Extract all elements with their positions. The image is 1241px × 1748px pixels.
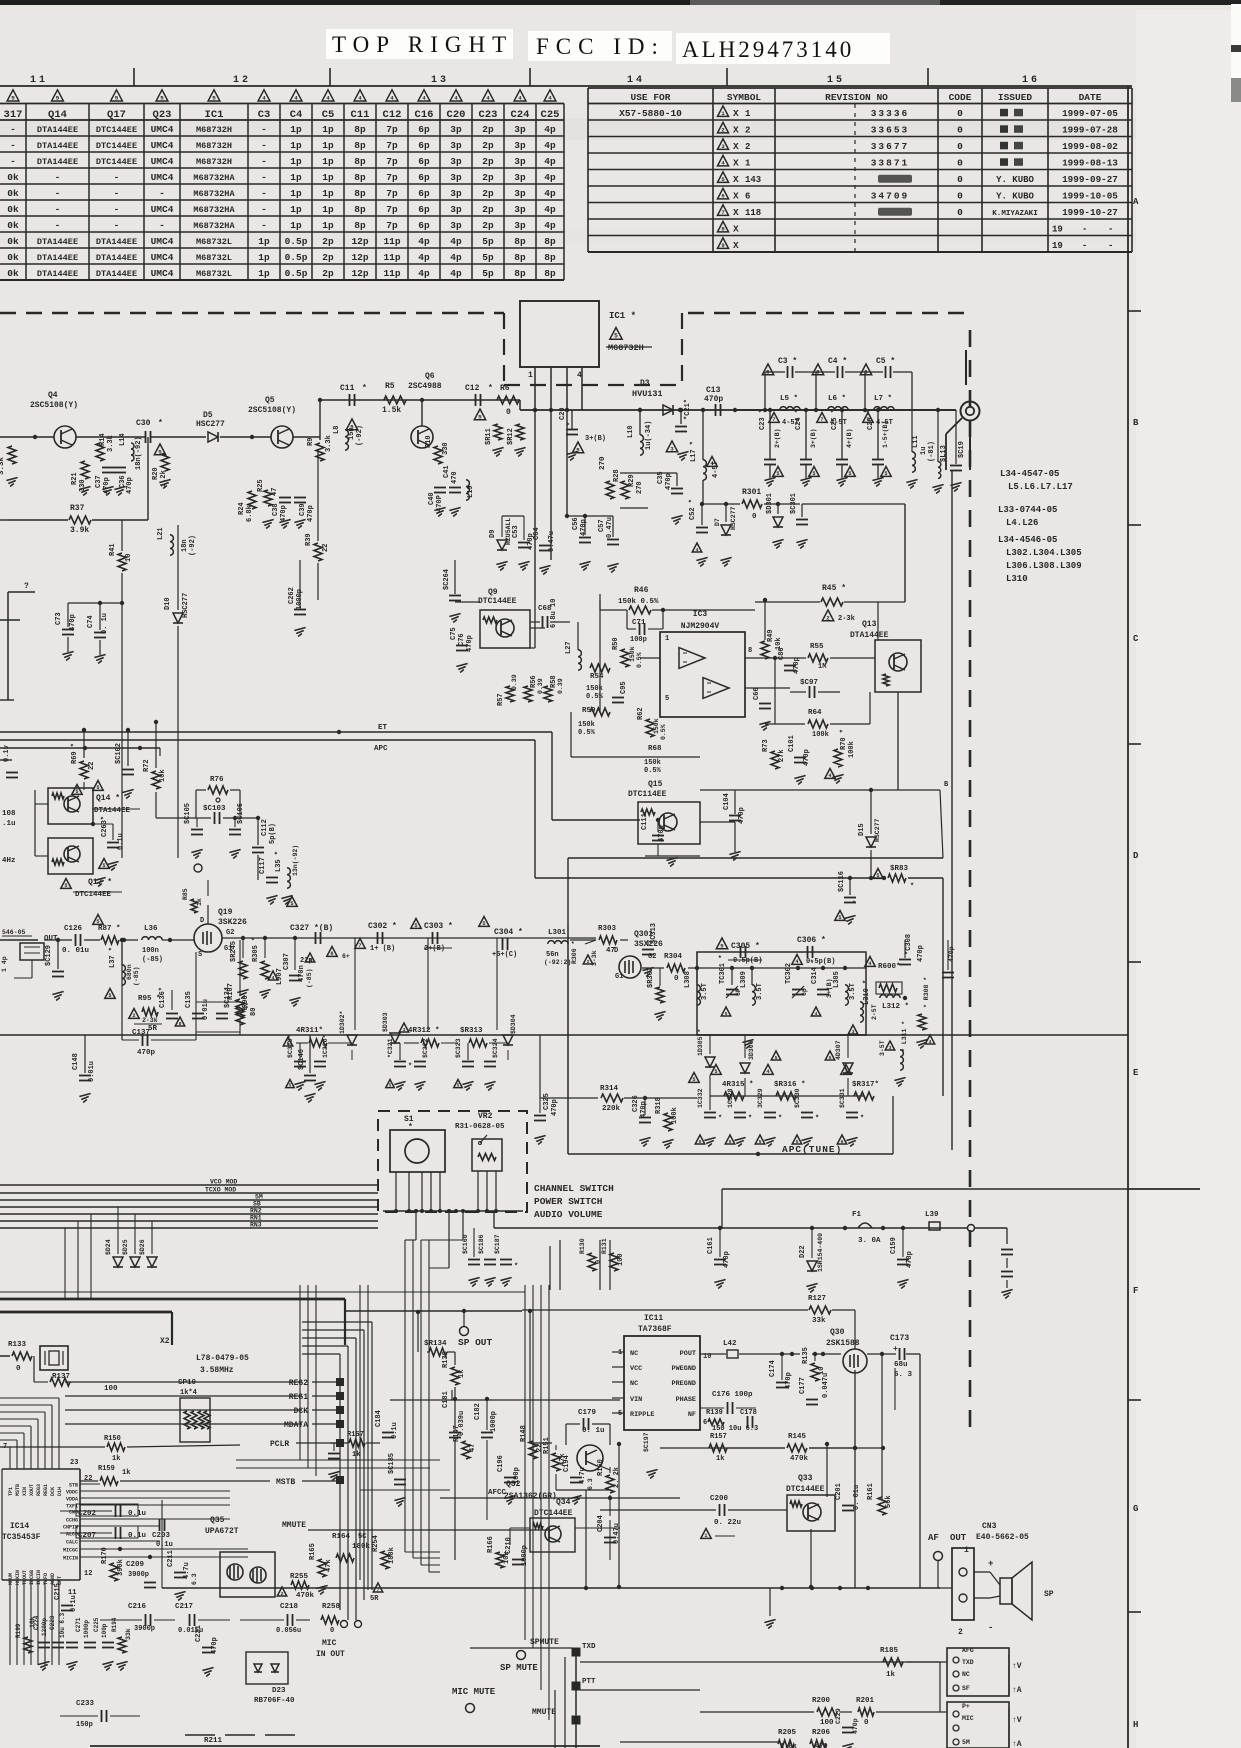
svg-text:4: 4 <box>454 94 458 101</box>
svg-text:C218: C218 <box>280 1603 299 1611</box>
diode SD301 <box>773 517 783 527</box>
IC14 bottom pins <box>9 1580 11 1665</box>
svg-text:1: 1 <box>704 1533 707 1539</box>
svg-text:2: 2 <box>958 1628 963 1637</box>
capacitor 3C330 <box>801 1112 813 1114</box>
svg-text:5: 5 <box>96 785 99 791</box>
svg-text:1p: 1p <box>290 220 302 231</box>
svg-text:C159: C159 <box>890 1237 898 1254</box>
svg-text:470p: 470p <box>640 1101 648 1118</box>
capacitors C23-C26 shunt bank <box>764 459 776 461</box>
svg-text:7p: 7p <box>386 156 398 167</box>
svg-text:*: * <box>488 384 493 393</box>
svg-text:C233: C233 <box>76 1700 95 1708</box>
svg-text:$C301: $C301 <box>790 493 798 514</box>
svg-text:M68732HA: M68732HA <box>193 205 235 215</box>
svg-text:-: - <box>55 220 61 231</box>
svg-text:4p: 4p <box>544 204 556 215</box>
resistor SR83 <box>888 874 906 882</box>
svg-text:470p: 470p <box>211 1637 219 1654</box>
svg-text:-: - <box>10 156 16 167</box>
IC14 top pins <box>9 1447 11 1469</box>
resistor R161 56k <box>878 1497 886 1515</box>
svg-text:L10: L10 <box>627 425 635 438</box>
svg-text:R303: R303 <box>598 925 617 933</box>
svg-text:Q4: Q4 <box>48 391 58 400</box>
resistor R166 10k <box>496 1552 504 1568</box>
svg-text:A: A <box>1133 197 1139 207</box>
svg-text:143: 143 <box>745 175 761 185</box>
svg-text:C104: C104 <box>723 793 731 810</box>
svg-text:R145: R145 <box>788 1433 807 1441</box>
svg-text:R127: R127 <box>808 1295 826 1303</box>
svg-text:R258: R258 <box>322 1603 341 1611</box>
svg-text:150k: 150k <box>644 759 661 767</box>
svg-text:R45 *: R45 * <box>822 584 846 593</box>
svg-text:Q33: Q33 <box>798 1474 813 1483</box>
svg-text:8p: 8p <box>354 140 366 151</box>
capacitor C201 <box>842 1505 854 1507</box>
svg-text:Q17: Q17 <box>107 109 126 121</box>
svg-text:C38: C38 <box>272 503 280 516</box>
svg-text:6p: 6p <box>418 140 430 151</box>
svg-text:C66: C66 <box>753 687 761 700</box>
svg-text:5: 5 <box>96 919 99 925</box>
svg-text:R54: R54 <box>590 673 604 681</box>
inductor L8 15n <box>345 430 348 437</box>
svg-text:F: F <box>1133 1286 1138 1296</box>
svg-text:D23: D23 <box>272 1687 286 1695</box>
svg-text:1u: 1u <box>920 447 928 455</box>
svg-text:33677: 33677 <box>871 141 910 152</box>
svg-text:R85: R85 <box>182 888 189 900</box>
long verticals center <box>299 1285 301 1460</box>
transistor Q14 DTA144EE <box>48 788 93 824</box>
svg-text:$D301: $D301 <box>766 493 774 514</box>
svg-text:13n(-92): 13n(-92) <box>292 845 299 876</box>
svg-text:$C185: $C185 <box>388 1453 396 1474</box>
svg-text:C304 *: C304 * <box>494 928 523 937</box>
transistor Q9 DTC144EE <box>480 610 530 648</box>
svg-text:7p: 7p <box>386 188 398 199</box>
capacitor C177 <box>806 1399 818 1401</box>
svg-text:0.1u: 0.1u <box>128 1532 146 1540</box>
svg-text:6p: 6p <box>418 172 430 183</box>
svg-text:XOUT: XOUT <box>29 1484 35 1496</box>
svg-text:-: - <box>114 220 120 231</box>
svg-text:HSKIN: HSKIN <box>15 1570 21 1585</box>
inductor L21 <box>170 535 173 542</box>
resistor R301 <box>742 500 762 508</box>
capacitor SC186 <box>484 1259 496 1261</box>
svg-text:HSC277: HSC277 <box>874 818 881 842</box>
svg-text:C101: C101 <box>788 735 796 752</box>
inductor L19 <box>466 480 469 487</box>
resistor R70 100k <box>834 749 842 767</box>
svg-text:8p: 8p <box>544 268 556 279</box>
svg-text:0: 0 <box>957 124 963 135</box>
svg-text:470k: 470k <box>296 1592 315 1600</box>
svg-text:108: 108 <box>2 810 16 818</box>
diode D9 HZU5ALL <box>497 540 507 550</box>
op-amp IC1 box <box>520 301 599 367</box>
svg-text:DATE: DATE <box>1079 92 1102 103</box>
svg-text:0: 0 <box>595 1260 603 1264</box>
svg-text:0: 0 <box>506 408 511 417</box>
svg-text:Q6: Q6 <box>425 372 435 381</box>
svg-text:3+(B): 3+(B) <box>585 435 606 443</box>
resistor R64 100k <box>808 720 828 728</box>
svg-text:MMUTE: MMUTE <box>532 1708 556 1717</box>
svg-text:1SR154-400: 1SR154-400 <box>817 1233 824 1272</box>
resistor R76 <box>208 786 228 794</box>
svg-text:*: * <box>778 1115 782 1123</box>
svg-text:C211: C211 <box>167 1550 175 1567</box>
svg-text:3: 3 <box>403 1027 406 1033</box>
svg-text:-: - <box>114 188 120 199</box>
right margin lighter paper <box>1136 10 1241 1748</box>
svg-text:470p: 470p <box>137 1049 156 1057</box>
svg-text:0: 0 <box>957 190 963 201</box>
svg-text:5: 5 <box>725 1011 728 1017</box>
svg-text:7p: 7p <box>386 220 398 231</box>
audio out line <box>620 1587 940 1589</box>
svg-text:0. 22u: 0. 22u <box>714 1519 741 1527</box>
svg-text:470k: 470k <box>790 1455 809 1463</box>
svg-text:3900p: 3900p <box>134 1625 155 1633</box>
svg-text:MMUTE: MMUTE <box>282 1521 306 1530</box>
capacitor C52 <box>696 527 708 529</box>
svg-text:R211: R211 <box>204 1737 223 1745</box>
svg-text:$C106: $C106 <box>237 803 245 824</box>
diode D7 HSC277 <box>721 525 731 535</box>
svg-text:R68: R68 <box>648 745 662 753</box>
capacitor C194 4.7u <box>570 1477 582 1479</box>
svg-text:R301: R301 <box>742 488 761 497</box>
svg-text:3: 3 <box>844 1069 847 1075</box>
capacitor C326 470p <box>639 1117 651 1119</box>
svg-text:CALC: CALC <box>66 1540 78 1546</box>
svg-text:DTA144EE: DTA144EE <box>96 269 137 279</box>
svg-text:470p: 470p <box>280 505 288 522</box>
svg-text:4.7u: 4.7u <box>183 1562 191 1579</box>
svg-text:0. 1u: 0. 1u <box>101 613 109 634</box>
svg-text:-: - <box>114 204 120 215</box>
svg-text:* L311 *: * L311 * <box>901 1021 908 1052</box>
svg-text:C3 *: C3 * <box>778 357 797 366</box>
svg-text:4-5T: 4-5T <box>712 461 720 478</box>
resistor R157 left 1k <box>349 1439 365 1447</box>
svg-text:REVISION NO: REVISION NO <box>825 92 888 103</box>
capacitor C35 470p <box>671 488 683 490</box>
svg-text:$C324: $C324 <box>492 1038 499 1058</box>
svg-text:CWO: CWO <box>69 1510 78 1516</box>
svg-text:5R: 5R <box>370 1595 379 1603</box>
wire Q34 to MMUTE bus <box>575 1527 620 1529</box>
crystal X2 <box>40 1346 68 1370</box>
svg-text:-: - <box>261 204 267 215</box>
svg-text:3p: 3p <box>514 172 526 183</box>
inductor L39 <box>929 1222 940 1230</box>
svg-text:C40: C40 <box>428 492 436 505</box>
svg-text:M68732L: M68732L <box>196 253 232 263</box>
IC1 revision triangle <box>610 328 622 340</box>
svg-text:4: 4 <box>422 94 426 101</box>
resistor R159 1k MSTB <box>100 1477 118 1485</box>
svg-text:8p: 8p <box>354 220 366 231</box>
svg-text:C201: C201 <box>835 1483 843 1500</box>
svg-text:2p: 2p <box>482 140 494 151</box>
svg-text:FCC ID:: FCC ID: <box>536 34 665 59</box>
resistor R10 330 <box>434 446 442 464</box>
svg-text:2p: 2p <box>482 172 494 183</box>
svg-text:R55: R55 <box>810 643 824 651</box>
svg-text:4: 4 <box>486 94 490 101</box>
capacitor C39 470p <box>294 497 306 499</box>
varactor wires <box>710 1095 864 1097</box>
svg-text:Y. KUBO: Y. KUBO <box>996 175 1034 185</box>
svg-text:*: * <box>408 1123 413 1132</box>
capacitor 1C328 <box>734 1112 746 1114</box>
svg-text:1k: 1k <box>716 1455 724 1463</box>
capacitor C136 <box>166 1013 178 1015</box>
svg-text:RB706F-40: RB706F-40 <box>254 1697 295 1705</box>
svg-text:DTA144EE: DTA144EE <box>37 157 78 167</box>
svg-text:5: 5 <box>775 1055 778 1061</box>
resistor R314 220k <box>601 1094 623 1102</box>
wire Q4 to C30 <box>76 436 126 438</box>
svg-text:C112: C112 <box>261 819 269 836</box>
resistor R130 0 <box>588 1253 596 1271</box>
svg-text:D: D <box>614 947 618 955</box>
svg-text:1p: 1p <box>290 172 302 183</box>
svg-text:IC3: IC3 <box>693 610 708 619</box>
svg-text:L17 *: L17 * <box>690 441 698 462</box>
svg-text:3p: 3p <box>514 156 526 167</box>
op-amp IC3 NJM2904V box <box>660 632 745 717</box>
svg-text:RN3: RN3 <box>250 1222 262 1229</box>
svg-text:4p: 4p <box>450 236 462 247</box>
svg-text:REG2: REG2 <box>289 1379 308 1388</box>
capacitor C262 1000p <box>294 609 306 611</box>
svg-text:4Hz: 4Hz <box>2 857 16 865</box>
ground Q6 bank <box>434 508 445 511</box>
svg-text:$C319*: $C319* <box>287 1034 294 1058</box>
svg-text:R147: R147 <box>453 1425 461 1442</box>
svg-text:DTC144EE: DTC144EE <box>96 141 137 151</box>
resistor R58a <box>544 686 552 702</box>
svg-text:*: * <box>910 883 914 891</box>
resistor R49 10k <box>761 641 769 659</box>
revision table <box>588 87 1132 89</box>
svg-text:1k: 1k <box>196 898 203 906</box>
svg-text:L36: L36 <box>144 925 158 933</box>
svg-text:C39: C39 <box>299 503 307 516</box>
svg-text:L8: L8 <box>333 426 341 434</box>
svg-text:6.3: 6.3 <box>587 1478 594 1490</box>
svg-text:R137: R137 <box>52 1373 70 1381</box>
svg-text:5R: 5R <box>148 1025 158 1033</box>
svg-text:4: 4 <box>294 94 298 101</box>
svg-text:5: 5 <box>478 413 482 420</box>
svg-text:1C320*: 1C320* <box>322 1034 329 1058</box>
svg-text:150k: 150k <box>578 721 595 729</box>
inductor L312 <box>880 995 887 998</box>
svg-text:5: 5 <box>289 1083 292 1088</box>
svg-text:L34-4546-05: L34-4546-05 <box>998 535 1057 545</box>
svg-text:7: 7 <box>721 209 724 216</box>
svg-text:3.3k: 3.3k <box>0 456 6 475</box>
svg-text:$C105: $C105 <box>184 803 192 824</box>
svg-text:G: G <box>1133 1504 1138 1514</box>
svg-text:8: 8 <box>748 647 752 655</box>
svg-text:C75: C75 <box>450 627 458 640</box>
svg-text:8p: 8p <box>514 268 526 279</box>
resistor R20 1.2k <box>161 453 169 471</box>
svg-text:10k: 10k <box>159 769 167 782</box>
inductor SL13 <box>938 462 941 468</box>
svg-text:-: - <box>10 140 16 151</box>
svg-text:R318: R318 <box>655 1097 663 1114</box>
svg-text:C53: C53 <box>512 525 520 538</box>
audio out line left part <box>162 1587 620 1589</box>
svg-text:C182: C182 <box>474 1403 482 1420</box>
svg-text:L35 *: L35 * <box>275 851 283 872</box>
svg-text:33871: 33871 <box>871 157 910 168</box>
inductor L309 3.5T <box>752 985 755 992</box>
svg-text:L4.L26: L4.L26 <box>1006 518 1038 528</box>
svg-text:MSTB: MSTB <box>15 1484 21 1496</box>
resistor R185 1k <box>883 1658 903 1666</box>
wire Q19 <box>162 939 194 941</box>
R157 wire <box>660 1447 700 1449</box>
svg-text:5: 5 <box>692 1077 695 1083</box>
svg-text:470p: 470p <box>704 395 723 404</box>
svg-text:R69 *: R69 * <box>71 743 79 764</box>
svg-text:Q30: Q30 <box>830 1328 845 1337</box>
svg-text:D7: D7 <box>714 518 721 526</box>
svg-text:R135: R135 <box>802 1347 810 1364</box>
svg-text:M68732HA: M68732HA <box>193 221 235 231</box>
svg-text:(-81): (-81) <box>928 441 936 462</box>
inductor L11 <box>912 452 915 459</box>
svg-text:IC1 *: IC1 * <box>609 311 636 321</box>
svg-text:546-05: 546-05 <box>2 929 26 936</box>
svg-text:3p: 3p <box>450 140 462 151</box>
svg-text:1p: 1p <box>322 220 334 231</box>
svg-text:R21: R21 <box>71 472 79 485</box>
svg-text:5: 5 <box>884 471 887 477</box>
capacitor C74 0.1u <box>94 632 106 634</box>
audio verticals <box>618 1444 620 1587</box>
svg-text:L308: L308 <box>684 971 692 988</box>
capacitor C68 6.8u <box>542 616 544 628</box>
svg-text:470p: 470p <box>906 1251 914 1268</box>
svg-text:470p: 470p <box>852 1718 859 1734</box>
resistor R9 3.3k <box>316 443 324 461</box>
transistor Q17 DTC144EE <box>48 838 93 874</box>
svg-text:0.5%: 0.5% <box>660 724 667 740</box>
wire osc mid <box>354 938 356 1030</box>
resistor R41 10 <box>118 553 126 571</box>
diode D15 HSC277 <box>866 837 876 847</box>
svg-text:VDDC: VDDC <box>66 1490 78 1496</box>
svg-text:470p: 470p <box>917 945 925 962</box>
capacitor C38 470p <box>279 497 291 499</box>
svg-text:*: * <box>748 1115 752 1123</box>
svg-text:1p: 1p <box>258 252 270 263</box>
resistor R200 100 <box>817 1708 837 1716</box>
svg-text:C263*: C263* <box>101 816 109 837</box>
svg-text:$C186: $C186 <box>478 1234 485 1254</box>
resistor R54 150k <box>590 664 610 672</box>
capacitor C101 470p <box>794 757 806 759</box>
ic IC14 TC35453F box <box>2 1468 80 1470</box>
svg-text:* R308 *: * R308 * <box>923 977 930 1008</box>
svg-text:C177: C177 <box>799 1377 807 1394</box>
svg-text:$R245: $R245 <box>230 941 238 962</box>
wire CN3 <box>937 1560 939 1588</box>
svg-text:L33-0744-05: L33-0744-05 <box>998 505 1057 515</box>
svg-text:D5: D5 <box>203 411 213 420</box>
svg-text:R62: R62 <box>637 707 645 720</box>
capacitor C304 <box>502 938 504 950</box>
svg-text:+: + <box>893 1345 898 1354</box>
diode SD24 <box>113 1257 123 1267</box>
svg-text:↑A: ↑A <box>1012 1686 1022 1695</box>
svg-text:56n: 56n <box>546 951 559 959</box>
svg-text:-: - <box>988 1623 993 1633</box>
svg-text:0.1u: 0.1u <box>70 1595 78 1612</box>
svg-text:4p: 4p <box>544 188 556 199</box>
capacitor C37 470p <box>102 467 114 469</box>
svg-text:SB: SB <box>253 1201 261 1208</box>
svg-text:P+: P+ <box>962 1703 970 1710</box>
potentiometer VR2 <box>472 1139 502 1171</box>
svg-text:2p: 2p <box>482 124 494 135</box>
svg-text:34709: 34709 <box>871 190 910 201</box>
svg-text:R73: R73 <box>762 739 770 752</box>
main RF wire <box>520 409 956 411</box>
svg-text:DTC144EE: DTC144EE <box>478 597 517 606</box>
long audio wires <box>300 1459 440 1461</box>
capacitor C148 0.01u <box>79 1075 91 1077</box>
svg-text:0.5p: 0.5p <box>285 236 308 247</box>
svg-text:L14: L14 <box>119 433 127 446</box>
antenna connector J1 <box>961 402 980 421</box>
svg-text:5: 5 <box>115 94 119 101</box>
svg-text:C74: C74 <box>87 615 95 628</box>
svg-text:2SC5108(Y): 2SC5108(Y) <box>248 406 296 415</box>
capacitor C11 <box>349 394 351 406</box>
diode D305 <box>705 1057 715 1067</box>
svg-text:D15: D15 <box>858 823 866 836</box>
svg-text:R206: R206 <box>812 1729 831 1737</box>
svg-text:-: - <box>1082 224 1087 234</box>
svg-text:-: - <box>261 172 267 183</box>
svg-text:X: X <box>733 223 739 234</box>
capacitor C322 <box>414 1061 426 1063</box>
vertical from E line to F1 <box>721 1189 723 1228</box>
svg-text:TOP RIGHT: TOP RIGHT <box>332 32 513 57</box>
diode D307 <box>843 1063 853 1073</box>
svg-text:0. 1u: 0. 1u <box>582 1427 605 1435</box>
svg-text:470n: 470n <box>298 965 306 982</box>
svg-text:0: 0 <box>864 1719 869 1727</box>
svg-text:M68732HA: M68732HA <box>193 173 235 183</box>
svg-text:L6 *: L6 * <box>828 395 846 403</box>
svg-text:MIC: MIC <box>962 1715 974 1722</box>
